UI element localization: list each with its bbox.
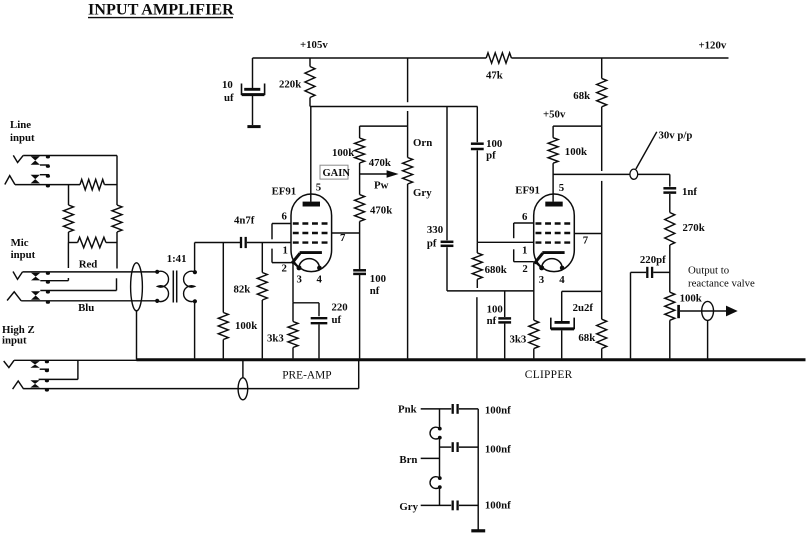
- resistor line attenuator (shunt right): [112, 205, 122, 243]
- svg-text:470k: 470k: [369, 157, 391, 169]
- wire +50v line: [543, 109, 602, 127]
- jack high-z sleeve: [13, 360, 359, 391]
- suppressor bracket V1: [272, 224, 291, 263]
- wire orn column mid: [360, 111, 408, 158]
- jack mic input sleeve (Blu): [7, 278, 157, 314]
- wire pin5 V1: [311, 107, 321, 202]
- jack high-z tip: [4, 360, 137, 372]
- wire pin7 V2: [574, 234, 601, 247]
- svg-text:5: 5: [316, 182, 321, 194]
- resistor mic pad: [68, 237, 117, 247]
- wire screen column V2: [601, 126, 603, 319]
- svg-text:4n7f: 4n7f: [234, 214, 255, 226]
- pin labels V2: [522, 182, 565, 286]
- svg-text:nf: nf: [370, 285, 380, 297]
- svg-text:47k: 47k: [486, 70, 503, 82]
- svg-text:pf: pf: [427, 237, 437, 249]
- wire line column left: [68, 185, 70, 205]
- wire shield to ground: [136, 311, 138, 360]
- capacitor 220pf: [631, 254, 670, 358]
- svg-text:100nf: 100nf: [485, 444, 511, 456]
- svg-text:input: input: [2, 335, 27, 347]
- wire anode V2 out: [553, 173, 670, 175]
- shield oval high-z cable: [238, 361, 248, 400]
- svg-text:68k: 68k: [573, 90, 590, 102]
- svg-text:1:41: 1:41: [167, 253, 187, 265]
- output wiper and arrow: [679, 305, 738, 318]
- wire mic tag left: [67, 243, 69, 269]
- svg-text:7: 7: [340, 232, 346, 244]
- svg-text:EF91: EF91: [272, 185, 297, 197]
- label Gry: [399, 501, 418, 513]
- svg-text:3: 3: [539, 274, 545, 286]
- svg-text:6: 6: [522, 211, 528, 223]
- svg-text:input: input: [11, 249, 36, 261]
- capacitor 10uf (polarised, HT reservoir): [222, 58, 265, 127]
- wire pin7 V1: [332, 232, 360, 244]
- svg-text:1nf: 1nf: [682, 186, 697, 198]
- wire anode V1 bus: [310, 106, 478, 108]
- svg-text:1: 1: [283, 244, 288, 256]
- svg-text:82k: 82k: [234, 283, 251, 295]
- resistor 470k (screen): [355, 195, 393, 233]
- triode/pentode V2 EF91: [515, 184, 574, 271]
- capacitor 4n7f: [195, 214, 292, 248]
- svg-text:68k: 68k: [578, 332, 595, 344]
- shield oval output: [702, 301, 714, 358]
- svg-text:220: 220: [332, 302, 348, 314]
- wire cathode V2 column: [533, 263, 535, 321]
- wire ground stub clipper: [476, 297, 478, 358]
- capacitor 100nf (Pnk): [421, 404, 511, 417]
- svg-text:PRE-AMP: PRE-AMP: [282, 369, 331, 381]
- svg-text:input: input: [10, 132, 35, 144]
- wire mic tag right: [116, 243, 118, 269]
- svg-text:100: 100: [486, 138, 502, 150]
- capacitor 330pf: [427, 107, 454, 291]
- svg-text:reactance valve: reactance valve: [688, 277, 755, 289]
- potentiometer 100k (output): [665, 292, 702, 358]
- gain box label: [320, 165, 350, 179]
- label Line input: [10, 119, 35, 144]
- jack line input sleeve: [5, 175, 117, 188]
- resistor 3k3 (V2 cathode): [510, 320, 539, 358]
- svg-text:2: 2: [522, 263, 527, 275]
- svg-text:100: 100: [487, 303, 503, 315]
- capacitor 220uf (cathode bypass): [311, 302, 348, 359]
- resistor 270k: [665, 213, 705, 293]
- resistor 680k (grid leak V2): [472, 242, 507, 288]
- capacitor 100nf (mid): [440, 442, 512, 455]
- svg-text:Pnk: Pnk: [398, 403, 417, 415]
- wire grid bus V2: [477, 241, 534, 243]
- svg-text:+120v: +120v: [699, 39, 727, 51]
- svg-text:+105v: +105v: [300, 39, 328, 51]
- svg-text:7: 7: [583, 234, 589, 246]
- potentiometer 470k (gain, Orn/Gry): [403, 137, 433, 199]
- capacitor 1nf: [663, 174, 697, 212]
- jack line input tip: [13, 155, 117, 168]
- svg-text:270k: 270k: [683, 222, 705, 234]
- wire high-z return up: [358, 361, 360, 389]
- svg-text:+50v: +50v: [543, 109, 566, 121]
- svg-text:3: 3: [297, 274, 303, 286]
- capacitor 100pf: [471, 107, 502, 243]
- wire line column right: [116, 156, 118, 206]
- svg-text:Line: Line: [10, 119, 31, 131]
- title INPUT AMPLIFIER: [88, 1, 234, 19]
- resistor 100k (V2 anode): [548, 126, 587, 202]
- pin labels V1: [282, 211, 323, 286]
- wire gry column: [407, 184, 409, 358]
- wire link column: [439, 409, 441, 506]
- shield oval mic cable: [131, 263, 143, 311]
- svg-text:330: 330: [427, 224, 443, 236]
- capacitor 100nf (Gry): [421, 500, 511, 512]
- svg-text:Pw: Pw: [374, 180, 389, 192]
- capacitor 100nf (V1 screen): [353, 233, 386, 358]
- svg-text:100k: 100k: [680, 293, 702, 305]
- link loop 1: [430, 427, 442, 440]
- wire orn column top: [407, 58, 409, 102]
- svg-text:uf: uf: [332, 314, 342, 326]
- label Mic input: [11, 237, 36, 261]
- resistor 68k (HT to +50v): [573, 58, 606, 126]
- resistor line attenuator (shunt left): [64, 205, 74, 243]
- triode/pentode V1 EF91: [272, 185, 332, 271]
- svg-text:100nf: 100nf: [485, 405, 511, 417]
- svg-text:100k: 100k: [565, 146, 587, 158]
- ground bottom network: [471, 529, 485, 532]
- svg-text:uf: uf: [224, 92, 234, 104]
- svg-text:100nf: 100nf: [485, 500, 511, 512]
- svg-text:INPUT AMPLIFIER: INPUT AMPLIFIER: [88, 1, 234, 19]
- wire secondary top: [194, 243, 196, 272]
- wire secondary bottom: [194, 301, 196, 358]
- resistor 47k (HT dropper): [486, 53, 511, 82]
- svg-text:Orn: Orn: [413, 137, 432, 149]
- link loop 2: [430, 476, 442, 489]
- svg-text:Brn: Brn: [399, 454, 417, 466]
- svg-text:680k: 680k: [485, 264, 507, 276]
- svg-text:1: 1: [522, 244, 527, 256]
- resistor line attenuator (series): [80, 179, 104, 189]
- svg-text:100: 100: [370, 273, 386, 285]
- svg-text:470k: 470k: [370, 205, 392, 217]
- svg-text:4: 4: [559, 274, 565, 286]
- svg-text:3k3: 3k3: [267, 332, 284, 344]
- svg-text:3k3: 3k3: [510, 333, 527, 345]
- svg-text:2u2f: 2u2f: [573, 302, 594, 314]
- svg-text:100k: 100k: [332, 147, 354, 159]
- +105v supply rail: [253, 39, 729, 58]
- svg-text:Gry: Gry: [413, 187, 432, 199]
- wiper arrow to gain pot: [360, 157, 399, 192]
- svg-text:Blu: Blu: [78, 302, 94, 314]
- svg-text:2: 2: [282, 263, 287, 275]
- svg-text:10: 10: [222, 79, 233, 91]
- wire 330pf return: [447, 290, 534, 292]
- svg-text:pf: pf: [486, 150, 496, 162]
- label High Z input: [2, 324, 35, 347]
- capacitor 2u2f (polarised): [551, 291, 602, 358]
- ground rail: [137, 358, 806, 361]
- suppressor bracket V2: [514, 223, 534, 262]
- svg-text:220k: 220k: [279, 78, 301, 90]
- svg-text:Red: Red: [79, 259, 98, 271]
- label Pnk: [398, 403, 417, 415]
- +120v label: [699, 39, 727, 51]
- svg-text:30v p/p: 30v p/p: [659, 130, 693, 142]
- label output: [688, 265, 755, 290]
- resistor 68k (screen V2): [578, 319, 606, 358]
- wire network bus: [477, 409, 479, 530]
- svg-text:220pf: 220pf: [640, 254, 666, 266]
- resistor 100k (secondary load): [218, 243, 257, 359]
- capacitor 100nf (clipper): [487, 291, 512, 359]
- resistor 100k (gain feed): [332, 126, 365, 195]
- svg-text:CLIPPER: CLIPPER: [525, 369, 573, 381]
- transformer T1 1:41: [155, 253, 197, 303]
- test point circle 30v p/p: [630, 130, 693, 180]
- resistor 3k3 (V1 cathode): [267, 303, 298, 359]
- svg-text:nf: nf: [487, 315, 497, 327]
- svg-text:EF91: EF91: [515, 184, 540, 196]
- svg-text:6: 6: [282, 211, 288, 223]
- label Brn: [399, 454, 439, 466]
- svg-text:Gry: Gry: [399, 501, 418, 513]
- svg-text:GAIN: GAIN: [323, 168, 351, 179]
- label PRE-AMP: [282, 369, 331, 381]
- wire cathode V1: [293, 263, 319, 303]
- svg-text:Mic: Mic: [11, 237, 29, 249]
- svg-text:Output to: Output to: [688, 265, 729, 277]
- svg-text:5: 5: [559, 182, 564, 194]
- jack mic input tip (Red): [13, 259, 157, 284]
- svg-text:100k: 100k: [235, 320, 257, 332]
- resistor 220k: [279, 58, 315, 107]
- resistor 82k (grid leak V1): [234, 243, 268, 359]
- svg-text:4: 4: [317, 274, 323, 286]
- label CLIPPER: [525, 369, 573, 381]
